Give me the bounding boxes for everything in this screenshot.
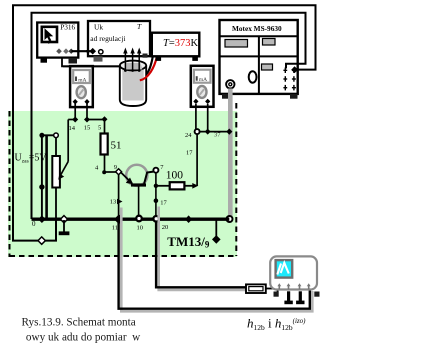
wire W3 overlay to flask — [63, 65, 121, 67]
wire R51 to node 4 — [104, 155, 106, 173]
open circle termination on bus — [227, 216, 233, 222]
black wire flask to T-box — [147, 56, 153, 74]
wire barrel to scope pin1 — [266, 288, 278, 290]
junction dots — [39, 133, 44, 138]
svg-text:100: 100 — [166, 170, 184, 182]
resistor R51 — [101, 134, 108, 155]
node 5 — [102, 116, 108, 122]
wire P316 to Uklad regulacji — [72, 50, 92, 52]
scope screen — [276, 260, 293, 278]
P316 inner dial square — [42, 27, 57, 42]
wire node24 to coax cable — [200, 131, 230, 133]
Motex display button 1 — [225, 40, 248, 48]
svg-text:Uk: Uk — [94, 23, 103, 32]
svg-text:9: 9 — [114, 164, 117, 171]
milliammeter mA2 (right) — [191, 66, 214, 107]
breadboard TM13/9 green area — [8, 111, 237, 257]
dashed border right — [235, 103, 237, 256]
node open diamond on W1 bottom — [38, 237, 45, 244]
ground — [63, 220, 65, 232]
wiper arrow from node 14 — [67, 120, 69, 162]
svg-text:TM13/9: TM13/9 — [167, 234, 210, 250]
multimeter Motex MS-9630 box — [220, 20, 298, 94]
ground symbol node — [60, 216, 67, 223]
BNC plug under pin3 — [299, 291, 302, 301]
wire to potentiometer top — [41, 134, 56, 136]
wire mA2 right terminal down — [207, 104, 209, 132]
cable A shadow — [121, 208, 312, 312]
Motex BNC output — [226, 80, 234, 88]
oscilloscope — [270, 256, 317, 289]
thermometer box T=373K — [152, 33, 200, 57]
svg-text:37: 37 — [214, 132, 221, 139]
svg-text:24: 24 — [185, 132, 192, 139]
wire W1 end segment into jack — [296, 69, 299, 71]
wire end into Uklad + terminal diamond — [86, 50, 91, 52]
P316 feet — [41, 58, 48, 63]
sensor wires from Uklad into flask with up arrows — [125, 52, 139, 71]
svg-text:mA: mA — [78, 78, 86, 84]
Motex knob — [249, 71, 257, 82]
node 11 — [114, 214, 124, 224]
galvanometer P316 box — [37, 23, 78, 58]
svg-text:13: 13 — [110, 199, 117, 206]
supply wire V1 — [41, 135, 43, 218]
svg-text:mA: mA — [199, 77, 207, 83]
resistor R100 — [170, 182, 185, 189]
potentiometer R-pot — [52, 156, 60, 188]
Uklad dark foot right — [143, 54, 148, 58]
svg-text:17: 17 — [186, 150, 193, 157]
svg-text:5: 5 — [98, 124, 101, 131]
wire node4 to node 9 — [104, 171, 118, 173]
base bar — [131, 183, 146, 186]
cable B shadow — [159, 207, 247, 290]
svg-text:14: 14 — [69, 125, 76, 132]
P316 terminals — [56, 48, 62, 54]
scope feet — [274, 292, 279, 297]
wire W2 inner loop: bus left end to Motex jack — [32, 13, 306, 219]
dashed border bottom — [10, 255, 238, 257]
node 7 open circle — [153, 168, 158, 173]
svg-text:17: 17 — [160, 199, 167, 206]
svg-text:P316: P316 — [60, 23, 75, 32]
Motex display button 3 — [262, 64, 273, 70]
W1 end diamond at Motex jack — [291, 66, 298, 73]
node 9 open diamond — [116, 169, 122, 175]
ground bus (node 0 rail) — [32, 217, 230, 220]
node 15 — [84, 117, 90, 123]
wire W1 outer loop: board lower-left to Motex jack — [13, 5, 316, 240]
stub to TM13/9 tag — [215, 219, 217, 237]
wire node7 down to junction — [155, 173, 157, 216]
T-box feet — [156, 56, 162, 61]
svg-text:10: 10 — [137, 224, 144, 231]
Uklad terminal circle — [99, 50, 103, 54]
svg-text:51: 51 — [111, 140, 122, 152]
node 17 dot mid — [154, 198, 159, 203]
node 20 — [153, 216, 159, 222]
terminal diamond at T-box — [155, 52, 161, 58]
wire W3 P316 to flask — [62, 58, 121, 67]
wire node24 down to R100 arrow — [196, 134, 198, 186]
svg-text:Rys.13.9. Schemat monta: Rys.13.9. Schemat monta — [22, 316, 136, 328]
svg-text:20: 20 — [162, 224, 169, 231]
bus diamond right — [185, 215, 192, 223]
wire R100 to node24 drop with arrow — [184, 185, 193, 187]
scope input pins — [277, 283, 310, 289]
Motex feet — [222, 94, 229, 99]
dashed border left — [9, 111, 11, 257]
cable A: node 11 to scope input 4 — [118, 174, 120, 216]
svg-text:Motex MS-9630: Motex MS-9630 — [232, 24, 282, 33]
milliammeter mA1 (left) — [70, 66, 93, 107]
wire W2 end segment into jack — [286, 64, 297, 69]
node 24 open circle — [195, 129, 200, 134]
node 10 — [136, 216, 142, 222]
Uklad regulacji box — [88, 21, 150, 56]
wire node5 to R51 — [104, 120, 106, 134]
supply wire V2 — [45, 136, 48, 219]
svg-text:ad regulacji: ad regulacji — [90, 34, 125, 43]
node 14 — [72, 117, 78, 123]
wire mA1 left terminal to node 14 — [74, 103, 76, 120]
P316 pointer arrow — [45, 28, 54, 41]
svg-text:owy uk adu do pomiar w: owy uk adu do pomiar w — [26, 331, 141, 343]
svg-text:0: 0 — [32, 220, 36, 228]
svg-text:T=373K: T=373K — [163, 38, 199, 49]
wire mA1 right terminal to node 15 — [86, 103, 88, 120]
wire mA2 left terminal to node 24 — [195, 104, 197, 129]
coax cable from Motex BNC to board bus — [228, 89, 233, 217]
cable B: node 20 to attenuator — [156, 221, 246, 287]
svg-text:15: 15 — [84, 124, 91, 131]
potentiometer top terminal — [54, 133, 59, 138]
emitter lead with arrow (from node 9 wire) — [121, 172, 133, 183]
attenuator barrel — [246, 284, 266, 293]
svg-text:Uzas=5V: Uzas=5V — [15, 152, 48, 164]
sensor wire tips inside flask — [125, 61, 139, 71]
diamond at Uklad terminal — [89, 48, 96, 55]
collector lead — [144, 172, 153, 185]
Motex jack grid — [283, 68, 296, 91]
transistor Q1 (common base) — [126, 165, 147, 186]
svg-text:11: 11 — [112, 224, 118, 231]
BNC plug under pin2 — [287, 291, 290, 301]
thermos flask — [120, 66, 146, 107]
base lead down to node 10 — [138, 187, 140, 217]
bus junction diamond at V1 — [38, 215, 46, 223]
Uklad gray foot — [94, 56, 103, 61]
red wire flask to T-box — [140, 56, 157, 80]
Motex display button 2 — [263, 39, 276, 46]
wire junction to R100 — [156, 185, 170, 187]
